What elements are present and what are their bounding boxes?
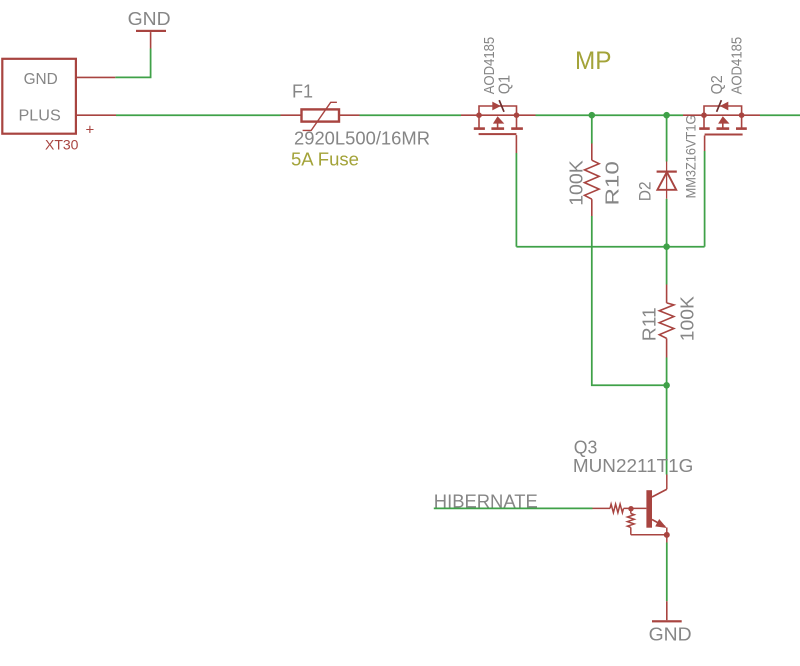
junction Q1 drain dot xyxy=(514,112,520,118)
svg-text:Q2: Q2 xyxy=(709,75,726,94)
wire main rail Q1 to Q2 xyxy=(536,114,684,116)
svg-text:XT30: XT30 xyxy=(45,136,79,152)
svg-text:AOD4185: AOD4185 xyxy=(481,37,498,95)
wire GND net (XT30 to GND1) xyxy=(115,49,150,78)
wire gate bus to R11 xyxy=(666,247,668,285)
svg-text:GND: GND xyxy=(649,624,692,644)
svg-text:2920L500/16MR: 2920L500/16MR xyxy=(294,127,430,148)
ground GND2 (bottom power symbol) xyxy=(649,601,692,644)
fuse F1 xyxy=(281,102,360,130)
junction Q1 source dot xyxy=(476,112,482,118)
connector XT30 xyxy=(2,59,76,134)
wire main rail to D2 xyxy=(666,115,668,161)
junction gate bus / D2-R11 xyxy=(663,243,670,250)
wire Q2 gate down xyxy=(704,151,706,247)
wire main rail to right edge xyxy=(760,114,800,116)
svg-text:R11: R11 xyxy=(639,307,659,341)
junction Q2 drain dot xyxy=(701,112,707,118)
svg-text:100K: 100K xyxy=(678,296,698,341)
wire R10 to node N1 (crosses gate bus) xyxy=(592,216,667,385)
zener diode D2 xyxy=(657,162,677,199)
svg-text:PLUS: PLUS xyxy=(19,108,61,125)
ground GND1 (top power symbol) xyxy=(128,9,171,48)
junction Q3 emitter dot xyxy=(664,532,670,538)
svg-text:MM3Z16VT1G: MM3Z16VT1G xyxy=(683,115,699,199)
svg-text:F1: F1 xyxy=(292,81,313,101)
svg-text:GND: GND xyxy=(128,9,171,29)
pin GND of XT30 xyxy=(77,76,116,78)
junction Q2 source dot xyxy=(739,112,745,118)
wire gate bus xyxy=(516,246,704,248)
wire D2 to gate bus xyxy=(666,199,668,247)
wire Q1 gate down xyxy=(515,153,517,247)
wire HIBERNATE net xyxy=(434,507,593,509)
wire PLUS net (XT30 to F1) xyxy=(116,114,281,116)
junction main rail / R10 xyxy=(589,112,596,119)
wire node N1 to Q3 collector xyxy=(666,385,668,474)
wire F1 to Q1 xyxy=(360,114,462,116)
svg-text:5A Fuse: 5A Fuse xyxy=(291,148,359,169)
junction Q3 base dot xyxy=(628,506,633,511)
svg-text:MUN2211T1G: MUN2211T1G xyxy=(573,455,694,476)
wire Q3 emitter to GND xyxy=(666,543,668,602)
svg-text:R10: R10 xyxy=(602,161,622,205)
resistor R10 xyxy=(585,144,600,217)
svg-text:Q1: Q1 xyxy=(497,75,514,95)
svg-text:GND: GND xyxy=(24,71,58,88)
transistor Q2 AOD4185 P-MOSFET (mirrored) xyxy=(683,100,760,151)
wire main rail to R10 xyxy=(591,115,593,143)
svg-text:AOD4185: AOD4185 xyxy=(728,37,745,95)
svg-text:MP: MP xyxy=(575,47,612,75)
transistor Q1 AOD4185 P-MOSFET xyxy=(461,100,536,153)
transistor Q3 MUN2211T1G digital NPN xyxy=(593,475,667,543)
junction node N1 xyxy=(663,382,670,389)
pin PLUS of XT30 xyxy=(77,114,117,116)
resistor R11 xyxy=(659,285,674,358)
svg-text:+: + xyxy=(86,121,95,138)
svg-text:D2: D2 xyxy=(636,182,654,202)
wire R11 to node N1 xyxy=(666,358,668,386)
junction main rail / D2 xyxy=(663,112,670,119)
svg-text:100K: 100K xyxy=(566,160,586,206)
